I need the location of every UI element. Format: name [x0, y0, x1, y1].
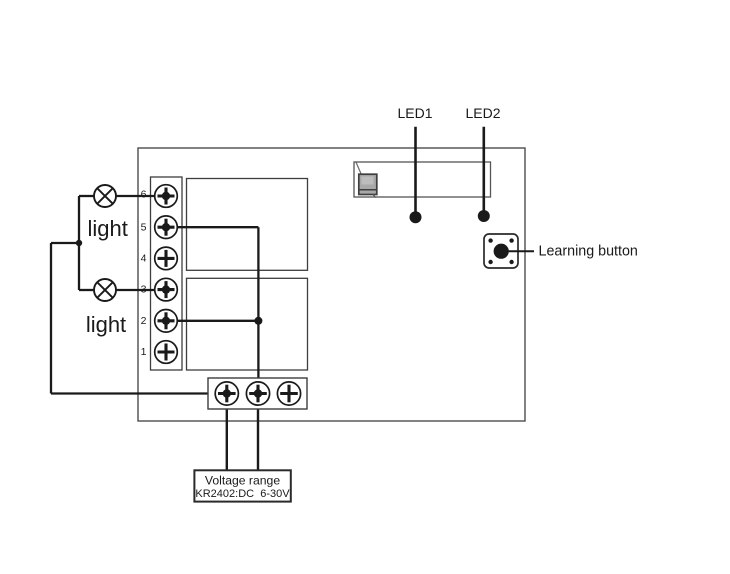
lamp L2	[94, 279, 116, 301]
power terminal block TB2	[208, 378, 307, 409]
svg-text:KR2402:DC 6-30V: KR2402:DC 6-30V	[195, 488, 290, 500]
LED2 solder dot	[478, 210, 490, 222]
LED1 solder dot	[410, 211, 422, 223]
relay K2	[187, 278, 308, 370]
svg-text:LED1: LED1	[397, 105, 432, 121]
svg-text:light: light	[86, 312, 126, 337]
wire lamp2 left lead	[79, 289, 95, 291]
power terminal 3 screw	[277, 382, 300, 405]
LED2 wire	[482, 127, 485, 215]
terminal 2 screw	[155, 310, 178, 333]
LED1 wire	[414, 127, 417, 216]
power terminal 2 screw	[246, 382, 269, 405]
terminal 5 screw	[155, 216, 178, 239]
RF receiver module box	[354, 162, 491, 197]
wire lamp2 to terminal 3	[94, 289, 166, 291]
antenna coil	[356, 162, 377, 197]
wire terminal 2 to bus	[166, 320, 258, 322]
relay K1	[187, 179, 308, 271]
junction node B	[254, 317, 262, 325]
terminal block TB1 (6-way)	[151, 177, 183, 370]
learning button S1	[484, 234, 518, 268]
svg-text:1: 1	[141, 346, 147, 358]
wire bottom horizontal to power terminal 1	[51, 392, 227, 394]
svg-text:Voltage range: Voltage range	[205, 474, 280, 488]
wire lamp1 to terminal 6	[94, 195, 166, 197]
wire power terminal 2 to voltage box	[257, 394, 259, 471]
terminal 3 screw	[155, 278, 178, 301]
svg-text:Learning button: Learning button	[539, 244, 638, 260]
svg-text:LED2: LED2	[465, 105, 500, 121]
svg-text:3: 3	[141, 283, 147, 295]
terminal 4 screw	[155, 247, 178, 270]
leader line to learning button	[507, 250, 535, 252]
wire power terminal 1 to voltage box	[226, 394, 228, 471]
junction node A	[76, 240, 82, 246]
wire vertical bus down to power terminal 2	[257, 227, 259, 393]
wire left vertical down	[50, 243, 52, 394]
wire junction to left	[51, 242, 79, 244]
svg-text:5: 5	[141, 222, 147, 234]
svg-text:light: light	[88, 216, 128, 241]
svg-text:2: 2	[141, 315, 147, 327]
terminal 1 screw	[155, 341, 178, 364]
terminal 6 screw	[155, 185, 178, 208]
svg-text:4: 4	[141, 253, 147, 265]
PCB board outline	[138, 148, 525, 421]
lamp L1	[94, 185, 116, 207]
voltage range box	[194, 470, 290, 501]
wire terminal 5 to vertical bus	[166, 226, 258, 228]
wire lamp1 left lead	[79, 195, 95, 197]
wire common vertical between lamps	[78, 196, 80, 290]
power terminal 1 screw	[215, 382, 238, 405]
svg-text:6: 6	[141, 188, 147, 200]
